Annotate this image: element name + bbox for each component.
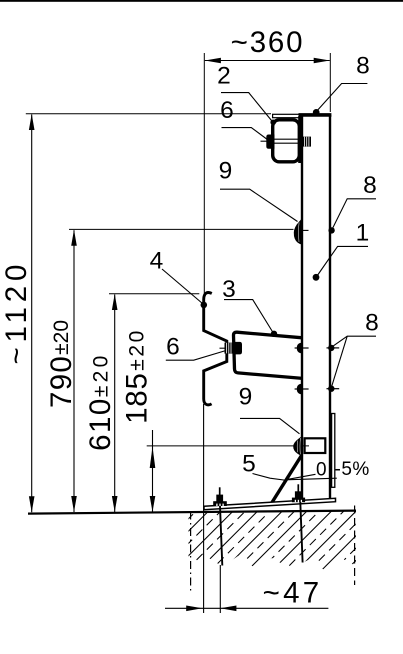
leader label 9 top: [220, 189, 298, 221]
svg-text:6: 6: [166, 334, 180, 361]
diagonal brace 5: [271, 455, 302, 504]
svg-text:1: 1: [356, 220, 370, 247]
svg-text:3: 3: [222, 276, 236, 303]
anchor bolt right: [292, 484, 305, 502]
post top cap plate: [299, 113, 332, 117]
rail bolt 6 middle: head: [233, 342, 242, 355]
leader label 6 middle: [166, 351, 226, 361]
svg-text:8: 8: [365, 310, 379, 337]
weld dot on cap (label 8): [313, 109, 320, 116]
bracket vertical spacer: [298, 116, 302, 163]
leader label 8 right: [332, 199, 376, 230]
rail bolt 6 middle: centerline tick: [220, 347, 225, 349]
handrail bolt 6: head: [266, 135, 274, 149]
svg-text:9: 9: [219, 158, 233, 185]
leader label 6 top: [222, 128, 269, 140]
slope wedge 0-5%: [285, 474, 315, 480]
anchor rod left: [220, 506, 222, 566]
svg-text:~47: ~47: [263, 576, 323, 609]
rail 3 channel profile: [233, 332, 302, 378]
hatch soil area: [118, 509, 403, 577]
post 1 left edge: [301, 116, 303, 501]
sigma rail 4 profile: [204, 292, 227, 404]
sleeve section rectangle: [305, 438, 326, 453]
nut dot right y348 with tick (label 8): [327, 345, 340, 351]
dimension ~360 extension line right: [329, 53, 331, 112]
anchor bolt left: [213, 487, 227, 506]
leader label 1: [317, 246, 368, 276]
leader dot on post (label 1): [313, 274, 320, 281]
dimension ~1120 line and arrows: [29, 114, 35, 512]
svg-text:-5%: -5%: [335, 459, 370, 480]
dimension ~1120 extension line: [26, 113, 271, 115]
svg-text:~360: ~360: [231, 26, 305, 59]
svg-text:610±20: 610±20: [84, 352, 117, 451]
leader label 3: [224, 300, 273, 333]
base plate: [204, 498, 336, 509]
leader label 4: [162, 269, 203, 304]
handrail bracket top plate: [273, 114, 300, 117]
dimension 185 extension line: [147, 445, 309, 447]
rail bolt 6 middle: threads: [225, 343, 234, 354]
ground line: [28, 511, 356, 514]
dimension ~360 extension line left: [203, 53, 205, 294]
dimension 790 line and arrows: [71, 230, 77, 512]
dimension 610 line and arrows: [112, 294, 118, 512]
dimension 790 extension line: [69, 228, 294, 230]
dimension ~360 line and arrows: [205, 58, 330, 64]
soil right boundary dashed line: [354, 506, 356, 586]
post clamp bolt 9 top (dome head): [294, 217, 303, 245]
svg-text:6: 6: [220, 97, 234, 124]
handrail bolt 6: threaded end: [302, 137, 311, 147]
stiffener plate right of post: [332, 414, 335, 488]
leader label 9 bottom: [240, 418, 300, 433]
leader dot on sigma rail (label 4): [201, 302, 208, 309]
leader label 8 bottom (two branches): [332, 336, 377, 387]
svg-text:0: 0: [316, 459, 327, 480]
top border frame line: [0, 0, 403, 2]
svg-text:2: 2: [217, 63, 231, 90]
svg-text:8: 8: [363, 172, 377, 199]
bottom clamp bolt 9 (dome head): [293, 435, 303, 456]
nut dot right at y230 (label 8): [328, 227, 334, 233]
pavement edge dash-dot line: [190, 512, 192, 595]
svg-text:~1120: ~1120: [0, 260, 33, 365]
svg-text:185±20: 185±20: [120, 328, 153, 424]
handrail tube 2: [273, 120, 300, 162]
svg-text:4: 4: [150, 248, 164, 275]
handrail bolt 6: centerline tick: [261, 140, 267, 142]
dimension ~47 extension line right: [219, 565, 221, 613]
leader dot on rail 3: [271, 331, 277, 337]
dimension ~47 line and arrows: [165, 606, 328, 612]
tick through bolt 9 top: [303, 229, 309, 231]
svg-text:5: 5: [242, 451, 256, 478]
rail bolt rivet lower (y389): [297, 384, 303, 395]
handrail bolt 6: shank lines: [275, 138, 302, 140]
leader label 2: [221, 93, 276, 126]
dimension ~47 extension line left (continues from top): [203, 404, 205, 613]
dimension 610 extension line: [109, 293, 199, 295]
anchor rod right: [300, 502, 302, 563]
leader label 8 topmost: [316, 84, 367, 112]
svg-text:9: 9: [239, 384, 253, 411]
post 1 right edge: [329, 115, 331, 499]
svg-text:8: 8: [356, 53, 370, 80]
svg-text:790±20: 790±20: [45, 320, 78, 408]
rail bolt rivet upper (y348): [297, 343, 303, 354]
dimension 185 line and arrows: [150, 430, 156, 512]
nut dot right y389 with tick (label 8): [327, 386, 340, 392]
leader label 5: [253, 474, 288, 481]
